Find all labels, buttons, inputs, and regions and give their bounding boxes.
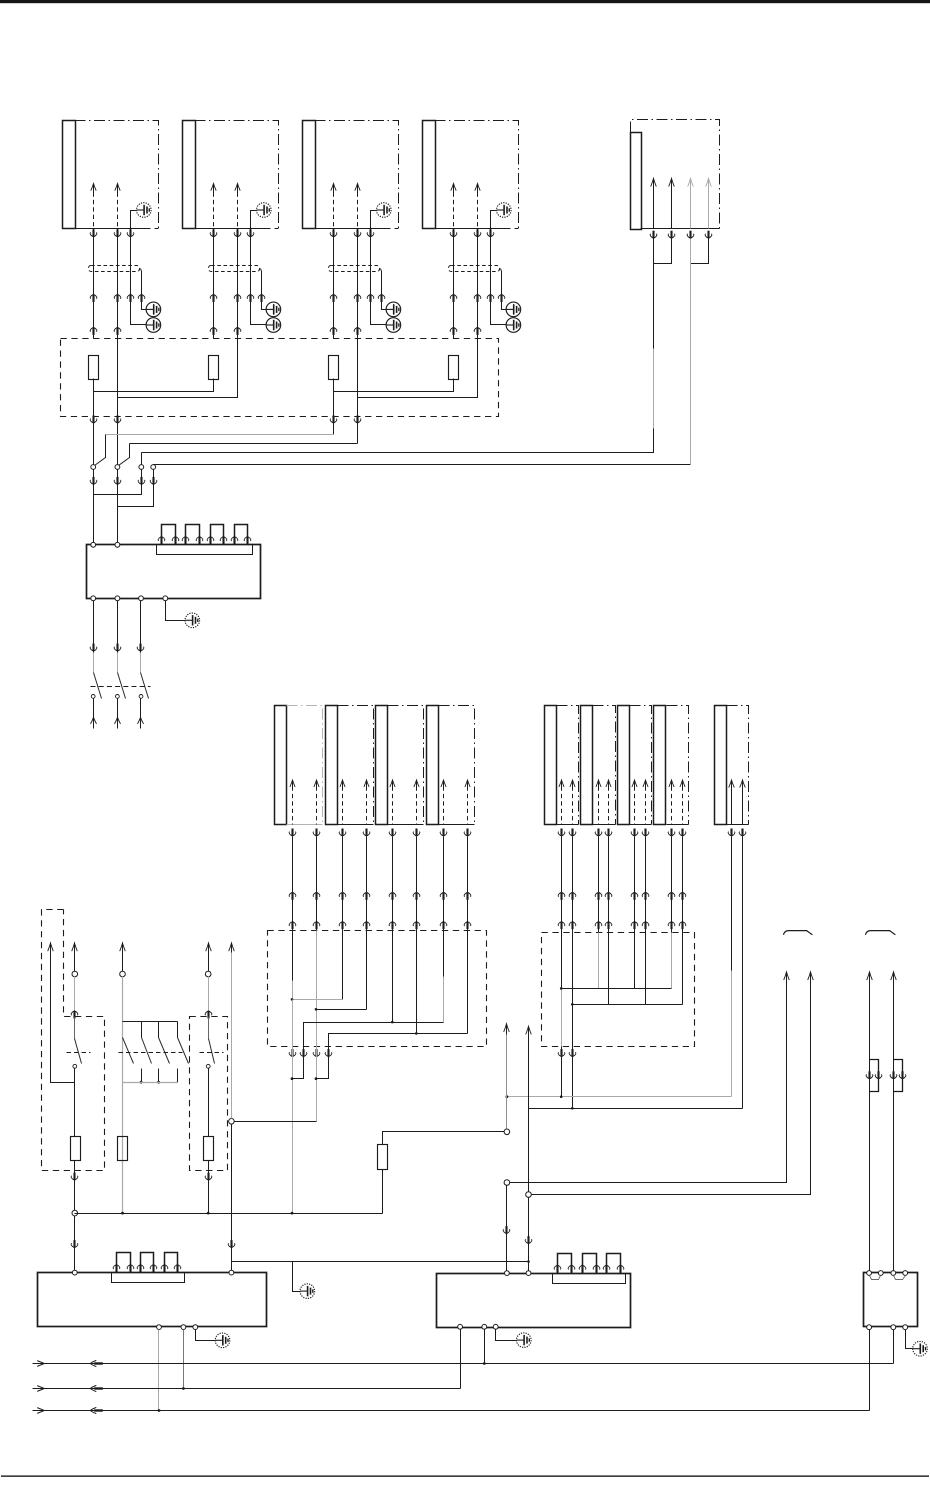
wire SW4 down merge [118, 470, 154, 507]
unit C1 connector arrow 2 [739, 829, 746, 837]
unit B3 connector bar [618, 706, 630, 825]
unit A1 connector arrow 1 [289, 829, 296, 837]
switch SW6 blade [208, 1017, 210, 1039]
wire unit U1 pin1 down [93, 229, 95, 339]
wire A2.1 down to RB1 [342, 837, 344, 931]
unit B1 chain outline [557, 706, 579, 825]
unit C wire1 riser [731, 837, 733, 971]
unit A2 connector arrow 2 [363, 829, 370, 837]
wire A4.1 down to RB1 [443, 837, 445, 931]
relay block RB2 dashed box [542, 933, 695, 1047]
multi-switch top bar [123, 1021, 178, 1023]
CB1 ground wire [166, 601, 186, 621]
junction block J/B dashed box [61, 339, 499, 417]
unit C1 chain outline [727, 706, 749, 825]
unit A3 connector arrow 1 [389, 829, 396, 837]
connector circle X [504, 1180, 510, 1186]
wire B4.2 down to RB2 [682, 837, 684, 933]
wire unit U2 ground branch 2 [251, 229, 267, 325]
ground G8 (CB3) [517, 1333, 532, 1348]
unit U4 connector arrows below box [450, 229, 457, 237]
unit C1 internal wire 2 [740, 780, 746, 788]
RB2 wire 3 (gray) [598, 933, 600, 989]
CB3 bottom terminal 2 [482, 1324, 487, 1329]
wire CB1 B2 down [117, 601, 119, 653]
unit A4 chain outline [439, 706, 475, 825]
RB1 output 1 (gray) down [292, 1000, 294, 1047]
unit B2 chain outline [593, 706, 616, 825]
wire RB2 out1 down [561, 1047, 563, 1097]
ground G3c [386, 318, 401, 333]
wire A4.2 down to RB1 [467, 837, 469, 931]
SB2 wire top [206, 943, 212, 951]
wire right column loop 1 [869, 973, 871, 1271]
unit U4 connector bar [423, 121, 436, 229]
dashed box SB2 [190, 1017, 228, 1171]
wire unit U2 pin1 down [213, 229, 215, 339]
wire U5 pair2 merge [691, 239, 709, 264]
wire unit U2 pin2 down [237, 229, 239, 339]
switch SW3 riser [141, 453, 143, 465]
unit A3 bottom edge [388, 824, 424, 826]
page arrow far right column 2 [891, 972, 897, 980]
switch SW2 contact node [115, 465, 120, 470]
page bottom rule line [1, 1475, 929, 1477]
connector CN3 dashed box [329, 266, 380, 272]
unit A4 internal wire 2 [465, 780, 470, 787]
ground G3a (inside unit U3) [377, 203, 392, 218]
unit B2 internal wire 2 [606, 780, 611, 787]
wire B1.2 down to RB2 [572, 837, 574, 933]
wire continue to Y riser [293, 1261, 529, 1263]
unit U5 wire 4 (gray) [706, 178, 712, 186]
CB4 ground wire [906, 1330, 914, 1349]
CB4 top terminal 3 [891, 1271, 896, 1276]
CB2 pin header rect [112, 1273, 185, 1283]
CB3 pin loop 2 [583, 1254, 597, 1274]
wire unit U4 pin2 down [477, 229, 479, 339]
RB1 wire 8 [467, 931, 469, 1034]
wire CB2-1 to bus3 (gray) [158, 1330, 160, 1411]
CB3 pin header rect [553, 1274, 626, 1284]
wire RB1 out2 merge left [293, 1047, 304, 1079]
unit U5 wire 2 [669, 178, 675, 186]
unit U3 internal dashed wire b [355, 184, 360, 191]
unit U4 internal dashed wire b [475, 184, 480, 191]
wire B2.1 down to RB2 [598, 837, 600, 933]
ground G6 [300, 1284, 315, 1299]
ground G4a (inside unit U4) [497, 203, 512, 218]
component box CB3 [437, 1274, 631, 1328]
relay block RB1 dashed box [268, 931, 487, 1047]
gray link wire (N2 to unit C wire1) [507, 1096, 732, 1098]
unit U5 bottom edge [641, 228, 720, 230]
wire F5 down [74, 1161, 76, 1211]
CB4 bridge 1-2 [870, 1276, 881, 1280]
multi-switch blades [123, 1038, 134, 1064]
unit U3 internal ground wire [371, 211, 377, 229]
unit U2 connector bar [183, 121, 196, 229]
wire unit U3 ground branch 2 [371, 229, 387, 325]
unit B1 connector bar [545, 706, 557, 825]
ground G2c [266, 318, 281, 333]
wire SW5 to fuse F5 [74, 1069, 76, 1137]
wire unit U1 pin2 down [117, 229, 119, 339]
wire CB1 B1 down [93, 601, 95, 653]
wire unit U1 ground branch 1 [141, 269, 147, 310]
RB1 merge 2-4 [317, 1009, 367, 1011]
wire B3.1 down to RB2 [634, 837, 636, 933]
unit U2 internal dashed wire b [235, 184, 240, 191]
RB2 wire 2 [572, 933, 574, 1047]
wire SW2 down [117, 470, 119, 543]
unit A4 connector arrow 1 [440, 829, 447, 837]
RB1 output arrows [289, 1049, 296, 1057]
mating connector bracket 2 [865, 931, 895, 935]
wire unit U2 ground branch 1 [261, 269, 267, 310]
unit U3 internal dashed wire a [331, 184, 336, 191]
wire feed C (gray) to switch SW1 contact [333, 392, 335, 435]
main low bus (horizontal) [75, 1213, 383, 1215]
wire pin2 U1-U2 join [118, 339, 238, 398]
unit A4 connector bar [427, 706, 439, 825]
unit A4 internal wire 1 [441, 780, 446, 787]
RB2 wire 5 [634, 933, 636, 989]
unit B2 connector arrow 2 [605, 829, 612, 837]
unit C1 bottom edge [727, 824, 749, 826]
connector CN4 dashed box [449, 266, 500, 272]
unit C1 internal wire 1 [729, 780, 735, 788]
SB1 entry arrow [71, 1011, 78, 1019]
unit B3 internal wire 1 [632, 780, 637, 787]
component box CB1 [87, 545, 261, 599]
unit U1 internal dashed wire b [115, 184, 120, 191]
RB2 wire 8 [682, 933, 684, 1005]
CB1 terminal T2 [115, 542, 120, 547]
unit A2 internal wire 2 [364, 780, 369, 787]
wire pole 2 tail with arrow [117, 699, 119, 729]
unit B2 bottom edge [593, 824, 616, 826]
SB1 main wire top [72, 943, 78, 951]
wire CB2-2 to bus2 [183, 1330, 185, 1389]
unit B1 connector arrow 2 [569, 829, 576, 837]
unit U3 connector arrows below box [330, 229, 337, 237]
wire F7 to node N2 [383, 1132, 505, 1145]
fuse F8 (on gray feed wire) [118, 1137, 128, 1161]
wire SW6 to fuse F6 [208, 1069, 210, 1137]
3-pole switch pole 3 [140, 653, 142, 673]
wire CB4-2 to bus1 [893, 1330, 895, 1364]
wire N0 to CB2 [74, 1216, 76, 1271]
wire SW4 to unit U5 (long horizontal) [154, 464, 691, 466]
switch SW5 link dash [67, 1052, 91, 1054]
node N2 connector circle [504, 1129, 510, 1135]
unit U2 connector arrows below box [210, 229, 217, 237]
multi-switch gray feed wire [120, 943, 126, 951]
unit U2 internal dashed wire a [211, 184, 216, 191]
RB1 wire 3 [342, 931, 344, 1000]
wire unit U4 pin1 down [453, 229, 455, 339]
unit U5 wire 3 (gray) [688, 178, 694, 186]
CB2 ground wire [196, 1330, 216, 1341]
wire U5 left vertical down [653, 239, 655, 349]
CB2 top terminal 1 [72, 1270, 77, 1275]
wire pole 3 tail with arrow [140, 699, 142, 729]
unit B3 connector arrow 2 [642, 829, 649, 837]
3-pole switch link (dashed) [91, 686, 151, 688]
unit B3 bottom edge [630, 824, 652, 826]
wire to node N1 (horizontal) [232, 1121, 317, 1123]
wire U5-left gray middle segment [653, 349, 655, 429]
RB1 merge 1-3 (gray) [293, 999, 343, 1001]
switch SW6 link dash [200, 1052, 224, 1054]
ground G2b [266, 302, 281, 317]
unit B4 internal wire 2 [680, 780, 685, 787]
ground G7 (CB2) [215, 1333, 230, 1348]
RB1 wire 7 [443, 931, 445, 977]
unit B4 bottom edge [667, 824, 689, 826]
fuse F3 [329, 356, 339, 380]
wire U5 right vertical down (gray) [690, 239, 692, 465]
CB1 pin loop 2 [186, 525, 200, 545]
CB2 bottom terminal 2 [181, 1325, 186, 1330]
wire pole 1 tail with arrow [93, 699, 95, 729]
wire RB1 out3 gray down [316, 1047, 318, 1122]
wire SW3 down merge [94, 470, 142, 495]
CB4 bottom terminal 1 [867, 1325, 872, 1330]
RB1 merge 6-8 staircase [329, 1034, 468, 1047]
unit A1 internal wire 2 [314, 780, 319, 787]
CB4 bottom terminal 3 [903, 1325, 908, 1330]
unit A2 internal wire 1 [340, 780, 345, 787]
unit U1 connector bar [63, 121, 76, 229]
unit U1 bottom edge [63, 228, 151, 230]
wire feed D to switch SW2 contact [357, 398, 359, 444]
CB1 pin loop 4 [235, 525, 248, 545]
unit B3 chain outline [630, 706, 652, 825]
wire F3-F4 join [334, 379, 454, 392]
connector CN1 dashed box [89, 266, 140, 272]
unit C wire2 riser [742, 837, 744, 1109]
unit B2 internal wire 1 [596, 780, 601, 787]
connector CN2 dashed box [209, 266, 260, 272]
black link wire (to unit C wire2) [529, 1108, 743, 1110]
riser Y with page arrow [526, 1026, 532, 1034]
fuse F5 [71, 1137, 81, 1161]
CB4 bridge 3-4 [894, 1276, 906, 1280]
CB2 bottom terminal 1 [157, 1325, 162, 1330]
wire unit U3 pin1 down [333, 229, 335, 339]
wire U5 pair1 merge [654, 239, 672, 264]
ground G9 (CB4) [913, 1341, 928, 1356]
CB3 bottom terminal 1 [458, 1324, 463, 1329]
power bus line 2 [33, 1388, 461, 1390]
wire unit U3 ground branch 1 [381, 269, 387, 310]
switch SW4 contact node [151, 465, 156, 470]
multi-switch node circle [120, 971, 126, 977]
wire B2.2 down to RB2 [608, 837, 610, 933]
wire bus riser to fuse F7 [382, 1170, 384, 1214]
unit B4 connector bar [654, 706, 666, 825]
unit A1 bottom edge [287, 824, 323, 826]
wire RB1 out1 gray to bus [292, 1047, 294, 1214]
RB1 wire 6 [416, 931, 418, 1034]
RB2 merge bus 1 [562, 988, 672, 990]
CB3 top terminal 2 [526, 1271, 531, 1276]
wire CB3-1 to bus2 [460, 1330, 462, 1389]
wire A1.1 down to RB1 [292, 837, 294, 931]
CB4 top terminal 2 [878, 1271, 883, 1276]
unit U3 bottom edge [303, 228, 391, 230]
unit A3 chain outline [388, 706, 424, 825]
wire A2.2 down to RB1 [366, 837, 368, 931]
3-pole switch pole 2 [117, 653, 119, 673]
SB2 entry arrow [205, 1011, 212, 1019]
fuse F2 [209, 356, 219, 380]
wire CB4-1 to bus3 [869, 1330, 871, 1411]
ground G4b [506, 302, 521, 317]
SB1 wire node circle [72, 971, 78, 977]
RB1 wire 5 [392, 931, 394, 1023]
CB1 bottom terminal B2 [115, 596, 120, 601]
unit U4 bottom edge [423, 228, 511, 230]
gray riser wire at far left-middle [229, 943, 235, 951]
fuse F6 [204, 1137, 214, 1161]
unit B4 internal wire 1 [669, 780, 674, 787]
switch SW3 contact node [139, 465, 144, 470]
switch SW1 blade [95, 435, 106, 466]
CB1 pin loop 1 [162, 525, 176, 545]
unit C1 connector arrow 1 [728, 829, 735, 837]
page arrow right column 2 [808, 972, 814, 980]
page arrow right column 1 [784, 972, 790, 980]
unit A3 internal wire 1 [390, 780, 395, 787]
RB1 wire 1 [292, 931, 294, 981]
wire unit U3 pin2 down [357, 229, 359, 339]
unit B3 internal wire 2 [643, 780, 648, 787]
unit U5 connector arrows [650, 231, 657, 239]
wire feed A down to switch SW1 [93, 392, 95, 465]
unit B2 connector bar [581, 706, 593, 825]
RB2 merge bus 2 [573, 1004, 683, 1006]
wire right column loop 2 [893, 973, 895, 1271]
SB1 wire gray segment [74, 977, 76, 1011]
wire feed B down to switch SW2 [117, 398, 119, 465]
ground G2a (inside unit U2) [257, 203, 272, 218]
multi-switch bottom bar (gray) [123, 1082, 178, 1084]
unit A4 bottom edge [439, 824, 475, 826]
connector circle Y [526, 1192, 532, 1198]
switch SW5 lower contact [73, 1064, 77, 1068]
SB1 page arrow wire (left) [48, 943, 54, 951]
RB1 wire 4 [366, 931, 368, 1010]
unit A2 connector bar [326, 706, 338, 825]
unit U4 internal ground wire [491, 211, 497, 229]
component box CB4 [864, 1273, 918, 1327]
unit U1 connector arrows below box [90, 229, 97, 237]
unit U5 connector bar [631, 133, 642, 230]
CB4 top terminal 4 [903, 1271, 908, 1276]
wire pin2 U3-U4 join [358, 339, 478, 398]
RB2 wire 1 [561, 933, 563, 989]
dashed box SB1 (L-shape) [42, 910, 105, 1171]
SB2 gray segment [208, 977, 210, 1011]
page top border line [0, 0, 930, 3]
unit U1 internal dashed wire a [91, 184, 96, 191]
wire F6 to bus [208, 1161, 210, 1214]
wire RB1 out4 merge left [317, 1047, 329, 1079]
node N1 connector circle [229, 1119, 235, 1125]
fuse F7 [378, 1145, 388, 1170]
RB1 wire 2 (gray) [316, 931, 318, 1047]
switch SW2 blade [119, 444, 130, 466]
multi-switch link dash [119, 1052, 183, 1054]
unit U4 internal dashed wire a [451, 184, 456, 191]
ground G1b [146, 302, 161, 317]
wire A3.2 down to RB1 [416, 837, 418, 931]
RB2 output arrows [558, 1049, 565, 1057]
CB3 ground wire [496, 1330, 517, 1341]
fuse F4 [449, 356, 459, 380]
fuse F1 [89, 356, 99, 380]
wire A3.1 down to RB1 [392, 837, 394, 931]
ground G4c [506, 318, 521, 333]
unit U5 chain outline [631, 120, 720, 229]
3-pole switch pole 1 [93, 653, 95, 673]
CB1 pin loop 3 [211, 525, 224, 545]
CB2 top terminal 2 [229, 1270, 234, 1275]
wire A1.2 down to RB1 [316, 837, 318, 931]
wire B4.1 down to RB2 [671, 837, 673, 933]
unit U3 connector bar [303, 121, 316, 229]
SB2 node circle [205, 971, 211, 977]
component box CB2 [38, 1273, 267, 1327]
unit B4 connector arrow 2 [679, 829, 686, 837]
multi-switch branch risers [141, 1022, 143, 1038]
RB1 merge 5-7 staircase [304, 1023, 444, 1047]
CB3 bottom terminal 3 [493, 1324, 498, 1329]
wire unit U4 ground branch 2 [491, 229, 507, 325]
unit A3 connector arrow 2 [413, 829, 420, 837]
wire unit U4 ground branch 1 [501, 269, 507, 310]
wire B3.2 down to RB2 [645, 837, 647, 933]
wire B1.1 down to RB2 [561, 837, 563, 933]
unit A2 bottom edge [338, 824, 374, 826]
wire CB1 B3 down [140, 601, 142, 653]
power bus line 3 [33, 1410, 870, 1412]
node N0 connector circle [72, 1210, 78, 1216]
unit A1 internal wire 1 [290, 780, 295, 787]
CB2 pin loop 2 [141, 1253, 154, 1273]
CB2 pin loop 3 [165, 1253, 178, 1273]
mating connector bracket 1 [783, 931, 812, 935]
wire X to right connector column [510, 973, 787, 1183]
CB3 top terminal 1 [505, 1271, 510, 1276]
unit A2 chain outline [338, 706, 374, 825]
wire Y to right connector column [532, 973, 811, 1195]
unit B4 chain outline [667, 706, 689, 825]
wire SW1 down [93, 470, 95, 543]
unit U2 internal ground wire [251, 211, 257, 229]
CB3 pin loop 3 [607, 1254, 621, 1274]
unit U4 chain outline [435, 121, 519, 229]
CB1 terminal T1 [91, 542, 96, 547]
unit U1 internal ground wire [131, 211, 137, 229]
wire F1-F2 join [94, 379, 214, 392]
RB2 wire 4 [608, 933, 610, 1005]
ground G1a (inside unit U1) [137, 203, 152, 218]
CB1 bottom terminal B3 [139, 596, 144, 601]
